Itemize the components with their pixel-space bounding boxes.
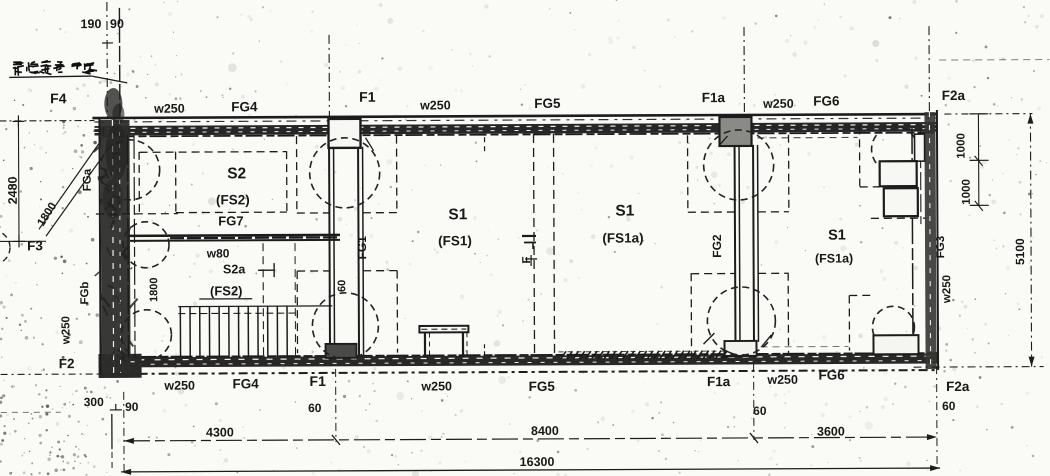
footing dashes FG2 top [687,135,689,212]
column stub F1a bottom [724,341,756,356]
faint dash row top right [939,59,1049,62]
svg-text:60: 60 [753,404,767,418]
svg-text:(FS1a): (FS1a) [815,251,853,265]
svg-text:S1: S1 [448,206,467,223]
dashed footing line above stair wall [96,213,178,215]
column stub F1 bottom [325,344,356,358]
svg-text:FGa: FGa [82,168,94,191]
svg-text:F2: F2 [59,356,75,371]
svg-text:2480: 2480 [6,176,20,204]
short dash marks at x=485 [484,137,486,153]
svg-text:w250: w250 [153,102,185,116]
right dim extension dash y=116 [944,113,1032,115]
dashed arc at left edge [0,230,10,264]
footing circle left-middle [123,222,169,268]
leader line 1800 (outer) [46,144,112,236]
tick between 300 and 90 [110,409,122,411]
hatch strip end arrow [724,350,734,358]
lower grid line x=111 [111,414,113,449]
svg-text:60: 60 [336,280,348,292]
left wall inner face lines [128,135,129,358]
column stub F1a top [719,117,751,146]
bottom wall hatched band [99,354,939,368]
footing dash below top wall right span [758,136,858,138]
svg-text:FG7: FG7 [218,213,243,228]
footing circle F1a top [703,130,773,200]
svg-text:F1a: F1a [702,90,726,105]
svg-text:w250: w250 [941,275,953,304]
stair treads [179,307,181,358]
leader line 1800 (inner) [39,137,104,229]
right wall inner face line [912,128,913,354]
footing dashes FG1 bottom [296,271,298,353]
hangul annotation text top-left [13,67,18,69]
bottom wall extension dash to left [1,373,99,375]
svg-text:F1: F1 [309,373,326,389]
small stub under wall top-right corner [915,134,925,161]
svg-text:16300: 16300 [520,455,555,469]
footing circle F1a bottom [707,287,775,355]
svg-text:FG1: FG1 [355,236,369,260]
svg-text:90: 90 [125,400,139,414]
blob at base of grid lines top-left [104,88,122,120]
svg-text:F2a: F2a [942,88,966,103]
stair dashed line x=263 [262,243,265,357]
tick between grid lines 190/90 [102,42,113,44]
stair room top wall [128,234,340,238]
diagonal hatch strip along bottom wall [561,351,567,359]
svg-text:FG4: FG4 [231,99,258,114]
flue box upper right wall [880,161,917,186]
svg-text:300: 300 [84,395,104,409]
right 1000 dim line [977,114,979,206]
column grid line above wall at x=745 [743,27,745,115]
svg-text:S1: S1 [615,202,634,219]
small diagonal above hatch left [703,333,714,344]
svg-text:F1a: F1a [707,374,731,389]
svg-text:w250: w250 [762,97,794,111]
table feature top bar [419,326,468,333]
svg-text:FG6: FG6 [818,367,845,382]
stair dashed line x=295 [294,243,297,357]
svg-text:S2: S2 [227,165,246,182]
footing dash above bottom wall right span [761,345,849,347]
hangul annotation underline [9,76,91,77]
svg-text:1800: 1800 [148,277,160,302]
extension line at y=239 left [0,240,46,242]
footing circle left-bottom [121,310,171,360]
svg-text:F3: F3 [27,238,43,253]
lower grid dash x=753 [753,364,755,440]
column grid line above wall at x=930 [928,26,930,111]
footing circle top-right [871,126,917,172]
svg-text:(FS2): (FS2) [210,283,243,298]
svg-text:1000: 1000 [961,179,973,205]
svg-text:FG4: FG4 [233,376,260,391]
lower grid dash x=123 [123,392,125,472]
svg-text:(FS1a): (FS1a) [602,230,643,245]
column grid line above wall at x=330 [328,35,330,117]
svg-text:F4: F4 [50,90,67,106]
partition tick marks [522,235,536,237]
svg-text:w250: w250 [766,373,798,387]
svg-text:S2a: S2a [223,262,246,276]
stair lower rail dashed [178,312,296,315]
column stub F1 top [328,119,360,148]
right dim vertical x=1031 [1030,114,1031,367]
top wall extension line to left [0,120,94,122]
svg-text:w250: w250 [60,316,72,345]
stray dashes left bottom [1,411,61,413]
svg-text:FG3: FG3 [935,236,947,258]
svg-text:190: 190 [81,17,102,31]
svg-text:4300: 4300 [206,425,234,439]
top wall outer line [92,114,937,118]
overall dimension line 16300 [121,468,940,472]
left wall dark scribbles [113,152,121,155]
flue box lower right wall [884,188,918,216]
bottom wall lower broken line [99,370,939,374]
footing circle left-top [100,140,160,200]
svg-text:FG2: FG2 [710,234,724,258]
bottom-left corner block [99,354,142,378]
top wall hatched band [94,122,937,135]
interior wall FG2 (x=735-758) [734,145,737,342]
left wall outer line [99,118,100,374]
stub rect bottom-right [873,335,918,354]
svg-text:90: 90 [110,17,124,31]
svg-text:60: 60 [942,399,956,413]
svg-text:8400: 8400 [531,424,559,438]
vertical dimension line 2480 at x=19 [17,121,20,241]
column grid line at x=108 (top-left) [106,2,109,118]
dimension line 4300/8400/3600 [124,437,937,441]
svg-text:FGb: FGb [79,282,91,305]
svg-text:FG5: FG5 [534,96,561,111]
svg-text:w80: w80 [206,246,230,260]
footing circle bottom-right [872,306,914,348]
small diagonal right of FG2 [761,335,771,347]
svg-text:F1: F1 [359,89,376,105]
lower grid dash x=335 [335,369,337,442]
svg-text:5100: 5100 [1013,238,1027,265]
footing circle F1 bottom [312,293,378,359]
svg-text:w250: w250 [420,379,452,393]
left wall hatched band [100,120,130,373]
stair upper rail [178,305,332,308]
footing circle F1 top [310,138,380,208]
table leg right [462,332,464,357]
svg-text:F2a: F2a [946,379,970,394]
svg-text:1000: 1000 [956,133,968,159]
top wall dash line [94,118,937,122]
footing dashes bottom-right [848,295,850,350]
bottom wall top edge line [99,353,939,357]
table leg left [424,332,426,357]
svg-text:w250: w250 [163,379,195,393]
footing dashes FG1 top [296,136,298,213]
partition dashed line right (x=554) [554,134,555,356]
interior wall FG1 (x=330-363) [328,147,331,357]
diagonal mark below F1 stub [366,138,374,151]
svg-text:60: 60 [308,401,322,415]
right wall outer line [937,110,938,370]
footing dashes top-right [858,126,860,186]
svg-text:(FS1): (FS1) [438,233,472,248]
svg-text:3600: 3600 [817,424,845,438]
diagonal mark left of F1a stub [719,136,728,146]
footing dashes FG2 bottom [690,273,692,355]
partition dashed line left (x=534) [534,134,535,356]
svg-text:FG5: FG5 [529,379,556,394]
right wall hatched band [924,112,936,369]
svg-text:S1: S1 [828,227,846,243]
lower grid dash x=936 [936,366,938,468]
column grid line at x=120 (top-left) [118,8,121,118]
right dim extension dash y=369 [914,366,1044,369]
svg-text:(FS2): (FS2) [216,192,250,207]
top wall inner broken line [118,133,938,137]
underline below (FS2) [199,298,252,300]
dashed footing rect in S2 [140,151,287,154]
svg-text:FG6: FG6 [813,94,840,109]
small bracket mark near S2a [258,269,274,271]
svg-text:w250: w250 [419,98,451,112]
